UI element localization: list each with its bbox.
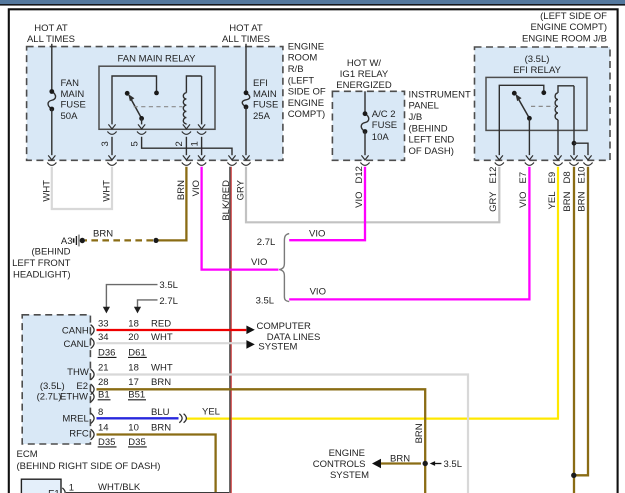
svg-text:B1: B1 (98, 390, 110, 401)
connector E1 box (cut off at bottom) (21, 479, 61, 493)
svg-text:BRN: BRN (176, 180, 187, 200)
svg-text:ROOM: ROOM (288, 53, 318, 64)
wire WHT U-link fuse to pin3 (52, 167, 112, 209)
wire BRN dashed to A3 (85, 239, 153, 241)
junction block ENGINE ROOM R/B (dashed box) (27, 47, 283, 161)
wire stub pin2 (185, 137, 187, 155)
wire BLK/RED (pin5) red stripe (230, 167, 232, 493)
svg-text:ECM: ECM (17, 449, 38, 460)
svg-text:SIDE OF: SIDE OF (288, 87, 326, 98)
svg-text:BRN: BRN (151, 377, 171, 388)
svg-text:1: 1 (69, 482, 74, 493)
svg-text:34: 34 (98, 332, 109, 343)
J/B edge crossing at x=574 (570, 155, 577, 160)
svg-text:ALL TIMES: ALL TIMES (27, 34, 75, 45)
svg-text:10A: 10A (372, 132, 390, 143)
fan relay pin1 internal wire (201, 76, 203, 124)
svg-text:RED: RED (151, 319, 171, 330)
svg-text:SYSTEM: SYSTEM (330, 470, 369, 481)
arrow to COMPUTER DATA LINES (CANH) (246, 326, 254, 335)
svg-text:A/C 2: A/C 2 (372, 109, 396, 120)
svg-text:OF DASH): OF DASH) (409, 146, 454, 157)
junction block ENGINE ROOM J/B (dashed box) (475, 47, 611, 160)
R/B edge crossing at x=232 (228, 155, 235, 160)
underline D35 (right) (128, 446, 147, 448)
svg-text:LEFT FRONT: LEFT FRONT (12, 258, 71, 269)
svg-text:1: 1 (189, 141, 200, 146)
svg-text:2.7L: 2.7L (257, 237, 276, 248)
svg-text:RFC: RFC (69, 428, 89, 439)
pin numbers row 34/20 WHT (98, 332, 173, 343)
fuse EFI MAIN FUSE 25A (242, 78, 278, 122)
svg-text:(BEHIND RIGHT SIDE OF DASH): (BEHIND RIGHT SIDE OF DASH) (17, 461, 161, 472)
svg-text:25A: 25A (253, 111, 271, 122)
svg-text:14: 14 (98, 422, 109, 433)
R/B edge crossing at x=201.6 (198, 155, 205, 160)
efi relay moving contact (512, 91, 517, 96)
relay EFI RELAY box (486, 54, 587, 131)
svg-text:FAN: FAN (61, 78, 80, 89)
J/B edge crossing at x=529.4 (526, 155, 533, 160)
svg-text:(LEFT SIDE OF: (LEFT SIDE OF (540, 11, 607, 22)
svg-text:VIO: VIO (251, 257, 267, 268)
net label HOT AT ALL TIMES (left) (27, 23, 75, 45)
svg-text:PANEL: PANEL (409, 101, 439, 112)
svg-text:D12: D12 (354, 166, 365, 183)
efi relay D8 internal wire (573, 86, 575, 155)
svg-text:(LEFT: (LEFT (288, 75, 315, 86)
wire YEL from E9 to MREL connector (187, 167, 558, 419)
svg-text:ALL TIMES: ALL TIMES (222, 34, 270, 45)
svg-text:HOT W/: HOT W/ (347, 58, 381, 69)
fan relay moving contact (125, 91, 130, 96)
fan relay fixed contact (154, 91, 159, 96)
underline B1 (98, 399, 111, 401)
svg-text:BRN: BRN (414, 423, 425, 443)
svg-text:VIO: VIO (354, 192, 365, 208)
svg-text:D8: D8 (562, 171, 573, 183)
svg-text:(BEHIND: (BEHIND (31, 246, 70, 257)
wire WHT/BLK (cut off) (66, 492, 229, 493)
svg-text:20: 20 (128, 332, 139, 343)
arrow to ENGINE CONTROLS SYSTEM (372, 459, 381, 468)
connector arc E1 pin (62, 488, 65, 493)
svg-text:MAIN: MAIN (61, 89, 85, 100)
svg-text:THW: THW (67, 367, 89, 378)
pin numbers row 21/18 WHT (98, 362, 173, 373)
wire stub pin1 (201, 137, 203, 155)
svg-text:5: 5 (129, 141, 140, 146)
svg-text:BRN: BRN (562, 191, 573, 211)
pointer 3.5L to pin column 33 (103, 280, 178, 314)
svg-text:50A: 50A (61, 111, 79, 122)
label ENGINE ROOM R/B location (288, 41, 326, 120)
wire WHT THW (97, 375, 469, 493)
connector A3 symbol (74, 235, 85, 247)
svg-text:E9: E9 (547, 172, 558, 184)
label INSTRUMENT PANEL J/B location (409, 89, 471, 156)
connector MREL BLU/YEL (179, 414, 186, 423)
svg-text:WHT/BLK: WHT/BLK (98, 482, 141, 493)
wire VIO from E7 (3.5L) (289, 167, 529, 300)
svg-text:E2: E2 (76, 381, 88, 392)
svg-text:E1: E1 (48, 488, 60, 493)
svg-text:YEL: YEL (202, 406, 220, 417)
fan relay pin crossing at x=141.6 (138, 124, 145, 128)
svg-text:ETHW: ETHW (60, 391, 88, 402)
efi relay switch rail (499, 85, 544, 155)
fan relay pin5 stub (141, 118, 143, 124)
underline D35 (left) (98, 446, 117, 448)
wire BRN from D8 (573, 167, 575, 493)
svg-text:MAIN: MAIN (253, 89, 277, 100)
wire BRN from fan relay pin2 (156, 167, 186, 241)
svg-text:21: 21 (98, 362, 109, 373)
svg-text:EFI RELAY: EFI RELAY (513, 65, 562, 76)
svg-text:FAN MAIN RELAY: FAN MAIN RELAY (118, 53, 197, 64)
svg-text:COMPUTER: COMPUTER (257, 321, 312, 332)
wire feed to EFI MAIN FUSE (245, 44, 247, 93)
R/B edge crossing at x=112 (108, 155, 115, 160)
fan relay switch rail (112, 76, 157, 124)
wire BLU MREL (97, 417, 179, 419)
wire below EFI MAIN FUSE (245, 107, 247, 155)
wire GRY fuse to E12 (246, 167, 499, 223)
svg-text:ENGINE: ENGINE (288, 98, 324, 109)
svg-text:B51: B51 (128, 390, 145, 401)
fan relay pin crossing at x=186.4 (183, 124, 190, 128)
pin numbers row 33/18 RED (98, 319, 171, 330)
net label HOT AT ALL TIMES (right) (222, 23, 270, 45)
pointer 2.7L to pin column 18 (134, 296, 178, 314)
pin numbers row 28/17 BRN (98, 377, 171, 388)
fan relay arm pivot dot (139, 116, 144, 121)
wire BLK/RED (pin5) black stripe (229, 167, 231, 493)
wire VIO from fan relay pin1 (202, 167, 279, 270)
svg-text:VIO: VIO (309, 228, 325, 239)
svg-text:CONTROLS: CONTROLS (313, 459, 366, 470)
ECM (dashed box) (22, 315, 90, 444)
svg-text:FUSE: FUSE (253, 100, 278, 111)
svg-text:BRN: BRN (151, 422, 171, 433)
fan relay switch arm (128, 94, 141, 118)
svg-text:ENGINE: ENGINE (288, 41, 324, 52)
wire BRN from E10 (575, 167, 588, 476)
svg-text:3.5L: 3.5L (256, 295, 275, 306)
svg-text:(3.5L): (3.5L) (525, 54, 550, 65)
svg-text:3.5L: 3.5L (159, 280, 178, 291)
efi relay mech link (dashed) (531, 105, 555, 107)
pointer 3.5L at junction (430, 459, 462, 470)
svg-text:INSTRUMENT: INSTRUMENT (409, 89, 471, 100)
fan relay coil (183, 76, 201, 124)
fuse FAN MAIN FUSE 50A (48, 78, 86, 122)
wire WHT CANL (97, 342, 247, 344)
title bar remnant (0, 0, 625, 6)
J/B edge crossing at x=558 (554, 155, 561, 160)
svg-text:10: 10 (128, 422, 139, 433)
pin numbers row D35/D35 (98, 437, 146, 448)
svg-text:17: 17 (128, 377, 139, 388)
wire stub pin3 (111, 137, 113, 155)
underline D61 (128, 356, 147, 358)
svg-text:BRN: BRN (576, 191, 587, 211)
underline B51 (128, 399, 146, 401)
svg-text:33: 33 (98, 319, 109, 330)
wire VIO from D12 (2.7L) (289, 167, 365, 240)
wire below FAN MAIN FUSE (51, 109, 53, 155)
wire BRN branch to engine controls (381, 462, 421, 464)
svg-text:J/B: J/B (409, 112, 423, 123)
svg-text:COMPT): COMPT) (288, 109, 325, 120)
svg-text:IG1 RELAY: IG1 RELAY (340, 69, 389, 80)
label ENGINE ROOM J/B location (522, 11, 607, 45)
svg-text:D35: D35 (98, 437, 115, 448)
underline D36 (98, 356, 117, 358)
svg-text:3: 3 (100, 141, 111, 146)
R/B edge crossing at x=186.4 (183, 155, 190, 160)
pin label (3.5L) E2 (40, 381, 88, 392)
svg-text:SYSTEM: SYSTEM (258, 342, 297, 353)
svg-text:18: 18 (128, 362, 139, 373)
svg-text:VIO: VIO (310, 287, 326, 298)
svg-text:R/B: R/B (288, 64, 304, 75)
pin numbers row B1/B51 (98, 390, 145, 401)
junction dot D8/E10 wires (571, 473, 576, 478)
fuse A/C 2 FUSE 10A (361, 109, 397, 143)
svg-text:(2.7L): (2.7L) (37, 391, 62, 402)
efi relay E7 internal wire (528, 118, 530, 155)
svg-text:8: 8 (98, 407, 103, 418)
svg-text:ENGINE: ENGINE (329, 448, 365, 459)
junction dot on BRN A3 wire (153, 238, 158, 243)
svg-text:D36: D36 (98, 347, 115, 358)
junction dot D8/E10 branch (572, 141, 577, 146)
label ECM (17, 449, 161, 472)
svg-text:3.5L: 3.5L (444, 459, 463, 470)
svg-text:(3.5L): (3.5L) (40, 381, 65, 392)
svg-text:2: 2 (174, 141, 185, 146)
junction block INSTRUMENT PANEL J/B (dashed box) (332, 91, 404, 160)
R/B edge crossing at x=51.8 (48, 155, 55, 160)
efi relay coil (555, 86, 574, 155)
svg-text:HOT AT: HOT AT (229, 23, 263, 34)
J/B edge crossing at x=499.3 (496, 155, 503, 160)
pin numbers row 14/10 BRN (98, 422, 171, 433)
svg-text:ENGINE COMPT): ENGINE COMPT) (530, 22, 607, 33)
svg-text:WHT: WHT (151, 362, 173, 373)
svg-text:YEL: YEL (547, 192, 558, 210)
svg-text:HEADLIGHT): HEADLIGHT) (13, 269, 71, 280)
svg-text:D35: D35 (128, 437, 145, 448)
svg-text:28: 28 (98, 377, 109, 388)
svg-text:BRN: BRN (93, 229, 113, 240)
svg-text:E12: E12 (488, 167, 499, 184)
wire stub pin5 rerouted (142, 137, 232, 155)
svg-text:HOT AT: HOT AT (34, 23, 68, 34)
label COMPUTER DATA LINES SYSTEM (257, 321, 321, 353)
wire BRN E2 (97, 389, 426, 493)
J/B edge crossing at x=588 (584, 155, 591, 160)
brace VIO 2.7L/3.5L split (279, 234, 289, 302)
svg-text:EFI: EFI (253, 78, 268, 89)
svg-text:ENGINE ROOM J/B: ENGINE ROOM J/B (522, 33, 607, 44)
svg-text:WHT: WHT (151, 332, 173, 343)
svg-text:E10: E10 (576, 167, 587, 184)
wire feed to FAN MAIN FUSE (51, 44, 53, 92)
R/B edge crossing at x=246 (242, 155, 249, 160)
net label HOT W/ IG1 RELAY ENERGIZED (336, 58, 392, 91)
efi relay E10 branch wire (574, 143, 588, 155)
svg-text:CANH: CANH (62, 326, 89, 337)
IP J/B edge crossing at x=365 (361, 155, 368, 160)
junction dot on E2 BRN wire (423, 461, 428, 466)
pin numbers row 8/ BLU (98, 407, 170, 418)
relay FAN MAIN RELAY box (99, 53, 215, 129)
svg-text:GRY: GRY (488, 191, 499, 212)
efi relay fixed contact (541, 90, 546, 95)
svg-text:LEFT END: LEFT END (409, 135, 455, 146)
wire feed to A/C 2 FUSE (364, 91, 366, 113)
svg-text:E7: E7 (518, 172, 529, 184)
arrow to COMPUTER DATA LINES (CANL) (246, 340, 254, 349)
svg-text:BRN: BRN (390, 454, 410, 465)
svg-text:18: 18 (128, 319, 139, 330)
svg-text:VIO: VIO (518, 192, 529, 208)
fan relay mech link (dashed) (134, 106, 183, 108)
svg-text:2.7L: 2.7L (159, 296, 178, 307)
svg-text:BLK/RED: BLK/RED (221, 180, 232, 221)
label ENGINE CONTROLS SYSTEM (313, 448, 369, 481)
efi relay switch arm (515, 94, 529, 118)
svg-text:CANL: CANL (63, 339, 88, 350)
svg-text:BLU: BLU (151, 407, 170, 418)
wire BRN RFC (97, 435, 216, 493)
pin numbers row D36/D61 (98, 347, 146, 358)
wire below A/C 2 FUSE (364, 132, 366, 156)
wire RED CANH (97, 329, 247, 331)
svg-text:(BEHIND: (BEHIND (409, 123, 448, 134)
svg-text:MREL: MREL (62, 414, 88, 425)
fan relay pin crossing at x=201.6 (198, 124, 205, 128)
svg-text:D61: D61 (128, 347, 145, 358)
svg-text:ENERGIZED: ENERGIZED (336, 80, 392, 91)
svg-text:FUSE: FUSE (61, 100, 86, 111)
svg-text:FUSE: FUSE (372, 120, 397, 131)
efi relay arm pivot dot (527, 116, 532, 121)
fan relay pin crossing at x=112 (108, 124, 115, 128)
label (BEHIND LEFT FRONT HEADLIGHT) (12, 246, 71, 280)
pin label (2.7L) ETHW (37, 391, 88, 402)
